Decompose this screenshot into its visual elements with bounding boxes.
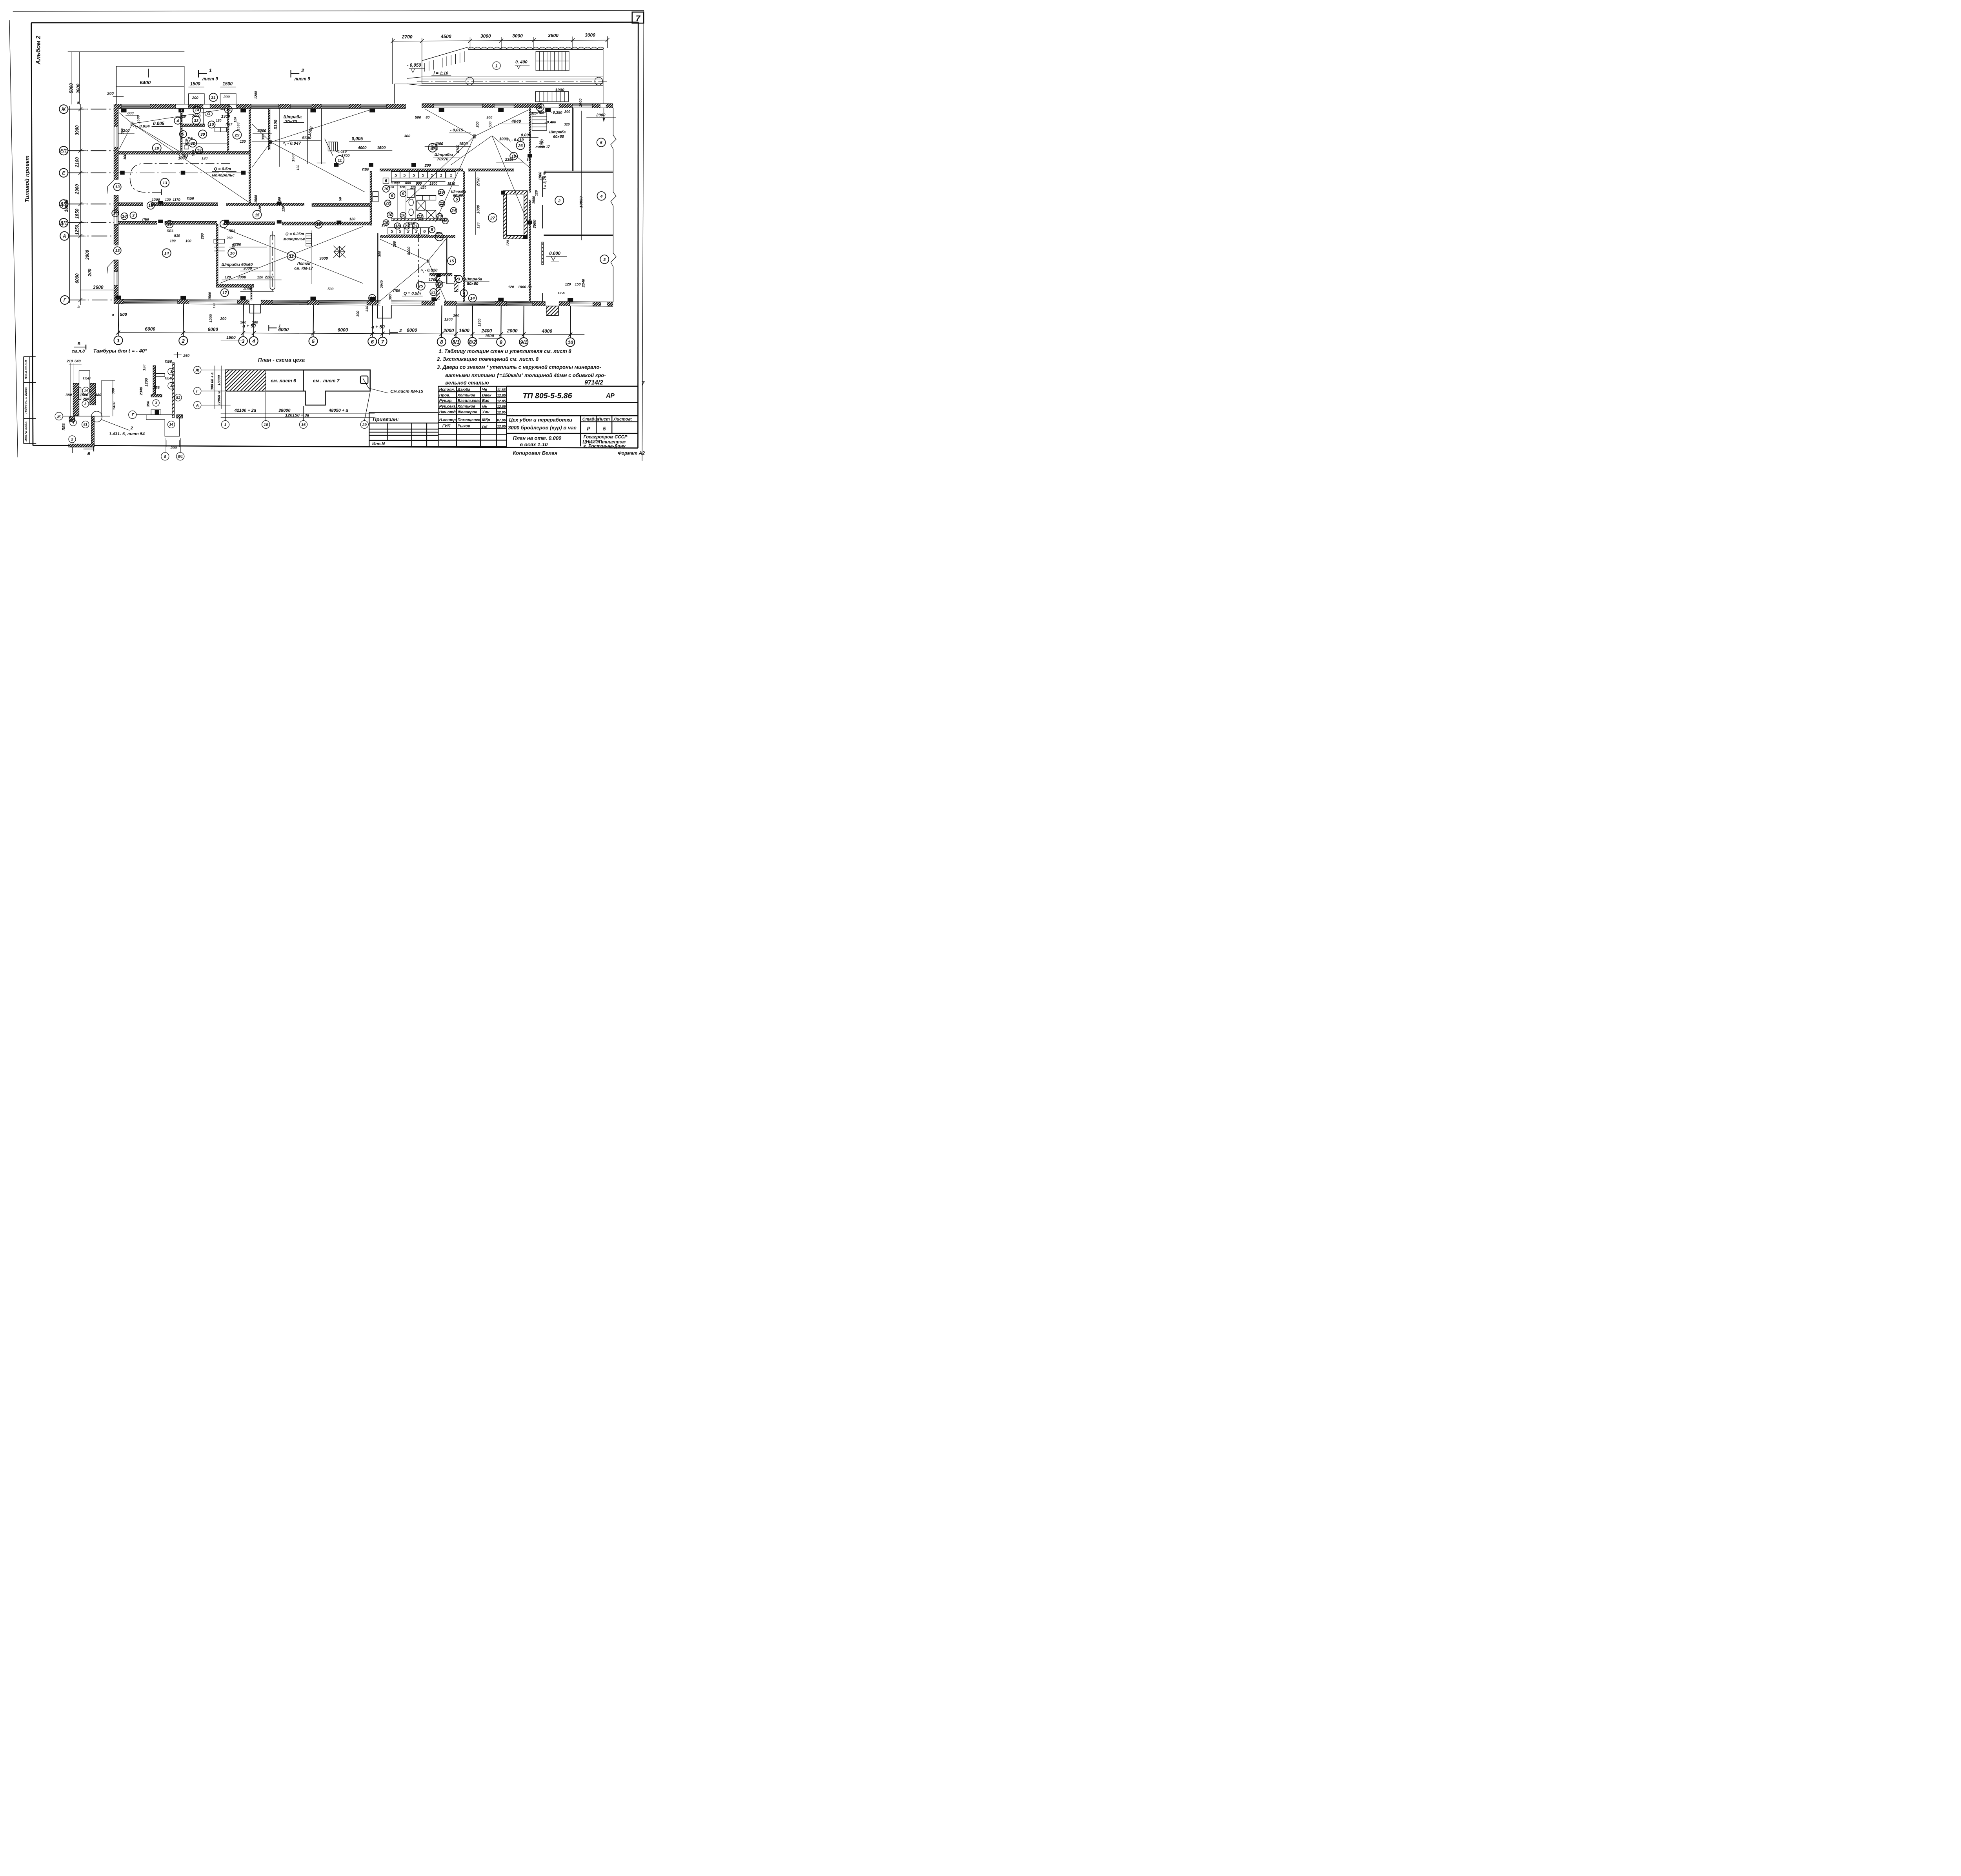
- svg-text:14: 14: [84, 389, 88, 393]
- svg-text:10: 10: [539, 140, 543, 144]
- svg-text:14: 14: [226, 107, 231, 112]
- svg-text:Жевнеров: Жевнеров: [457, 410, 478, 414]
- svg-text:Г: Г: [64, 298, 67, 303]
- svg-text:8: 8: [440, 339, 443, 345]
- top wall hatched piers: [114, 104, 613, 109]
- svg-text:120: 120: [565, 282, 571, 286]
- svg-text:5: 5: [312, 338, 315, 344]
- svg-text:30: 30: [200, 132, 205, 137]
- svg-text:2: 2: [130, 426, 133, 431]
- svg-text:500: 500: [415, 116, 422, 120]
- svg-text:3: 3: [458, 277, 460, 282]
- axis 4: [249, 337, 258, 345]
- svg-text:Н.контр.: Н.контр.: [439, 418, 457, 422]
- svg-text:200: 200: [170, 446, 177, 450]
- svg-text:1500: 1500: [226, 335, 236, 340]
- ramp horizontal lines: [422, 76, 603, 78]
- svg-text:2: 2: [301, 67, 304, 73]
- svg-text:200: 200: [424, 164, 431, 168]
- svg-text:1500: 1500: [190, 82, 200, 87]
- svg-text:Штраба: Штраба: [451, 189, 466, 193]
- sanitary partitions middle: [373, 184, 446, 221]
- svg-text:120: 120: [165, 198, 171, 202]
- svg-text:1170: 1170: [173, 198, 180, 202]
- svg-text:1: 1: [209, 67, 212, 73]
- privyazan table: [369, 413, 438, 447]
- svg-text:3. Двери со знаком * утепли: 3. Двери со знаком * утеплить с наружной…: [437, 364, 601, 370]
- svg-text:Ж: Ж: [61, 107, 66, 112]
- axis slash ticks on bottom dim line: [116, 331, 573, 336]
- svg-text:31: 31: [211, 95, 216, 100]
- svg-text:В: В: [78, 342, 80, 346]
- bottom axis circles and leaders: [114, 304, 585, 347]
- svg-text:1800: 1800: [429, 182, 437, 185]
- svg-text:380: 380: [111, 388, 116, 394]
- svg-text:ЦНИИЭПтицепром: ЦНИИЭПтицепром: [582, 440, 626, 445]
- corridor lower wall D/1: [118, 222, 370, 225]
- svg-text:Ввек: Ввек: [482, 393, 492, 398]
- svg-text:Типовой проект: Типовой проект: [24, 155, 31, 202]
- svg-text:5: 5: [413, 173, 415, 178]
- svg-text:5: 5: [395, 173, 397, 178]
- svg-text:Штраба: Штраба: [549, 130, 566, 135]
- svg-text:10: 10: [264, 423, 268, 427]
- svg-text:9714/2: 9714/2: [584, 380, 603, 386]
- svg-text:Рук.секг.: Рук.секг.: [439, 404, 457, 409]
- svg-text:7: 7: [641, 381, 645, 387]
- svg-text:390: 390: [146, 400, 150, 407]
- svg-text:1980: 1980: [532, 196, 536, 204]
- svg-text:3100: 3100: [274, 120, 278, 129]
- svg-text:9: 9: [391, 194, 393, 198]
- axis Ж line: [63, 415, 110, 417]
- leader to 1.431-6: [91, 411, 102, 422]
- svg-text:120: 120: [508, 285, 514, 289]
- svg-text:80х60: 80х60: [467, 281, 478, 286]
- svg-text:см. лист 6: см. лист 6: [271, 378, 296, 384]
- svg-text:120: 120: [410, 186, 416, 189]
- top exterior wall band: [114, 104, 613, 109]
- svg-text:ПБ6: ПБ6: [62, 423, 65, 431]
- svg-text:2. Экспликацию помещений см.: 2. Экспликацию помещений см. лист. 8: [437, 356, 539, 362]
- svg-text:2340: 2340: [139, 387, 144, 396]
- svg-text:Е: Е: [62, 171, 65, 176]
- svg-text:Лист: Лист: [598, 417, 610, 422]
- svg-text:Подпись и дата: Подпись и дата: [24, 387, 28, 413]
- svg-text:Цех убоя и переработки: Цех убоя и переработки: [509, 417, 572, 423]
- svg-text:5600: 5600: [302, 136, 311, 140]
- svg-text:1. Таблицу толщин стен и ут: 1. Таблицу толщин стен и утеплителя см. …: [439, 348, 572, 354]
- detail1 circled refs: [69, 387, 89, 443]
- svg-text:7: 7: [381, 339, 384, 345]
- svg-text:12.85: 12.85: [497, 411, 506, 414]
- top wall pilaster squares: [121, 108, 551, 113]
- svg-text:300 60 + а: 300 60 + а: [210, 373, 215, 390]
- svg-text:см . лист 7: см . лист 7: [313, 378, 340, 384]
- svg-text:i = 3,75 %: i = 3,75 %: [543, 171, 548, 189]
- svg-text:3: 3: [155, 401, 157, 405]
- svg-text:130: 130: [382, 224, 387, 227]
- svg-text:13: 13: [115, 248, 120, 253]
- svg-text:6000: 6000: [407, 327, 417, 333]
- hatched part of key plan: [226, 370, 266, 391]
- svg-text:3: 3: [603, 257, 606, 262]
- svg-text:510: 510: [174, 234, 180, 238]
- svg-text:Ж: Ж: [195, 368, 200, 373]
- svg-text:200: 200: [107, 91, 114, 96]
- svg-text:18: 18: [122, 214, 127, 219]
- svg-text:80: 80: [527, 158, 531, 162]
- svg-text:1500: 1500: [254, 195, 258, 203]
- svg-text:16: 16: [301, 423, 306, 427]
- svg-text:27: 27: [490, 216, 495, 221]
- svg-text:Q = 0.5т: Q = 0.5т: [404, 291, 421, 296]
- svg-text:10: 10: [388, 213, 393, 217]
- svg-text:Учи: Учи: [482, 410, 489, 414]
- wall 17 to facade: [251, 287, 252, 300]
- svg-text:- 0,350: - 0,350: [551, 111, 562, 115]
- svg-text:1: 1: [440, 173, 442, 178]
- room 5 dim arrow: [603, 108, 605, 122]
- svg-text:А: А: [196, 404, 199, 408]
- svg-text:1200: 1200: [477, 318, 481, 326]
- svg-text:см. КМ-17: см. КМ-17: [294, 267, 313, 271]
- svg-text:60х60: 60х60: [453, 193, 463, 197]
- svg-text:1300: 1300: [121, 129, 130, 133]
- svg-text:Q = 0.25т: Q = 0.25т: [286, 232, 304, 236]
- svg-text:Дзюба: Дзюба: [457, 387, 471, 392]
- svg-text:126150 + 3а: 126150 + 3а: [285, 413, 309, 418]
- svg-text:9: 9: [500, 339, 503, 345]
- svg-text:1510: 1510: [447, 182, 455, 186]
- svg-text:130: 130: [240, 140, 246, 144]
- svg-text:1300: 1300: [221, 115, 230, 119]
- svg-text:Q = 0.5т: Q = 0.5т: [214, 167, 231, 171]
- axis 8/1: [452, 338, 460, 346]
- svg-text:200: 200: [564, 110, 570, 114]
- axis 6: [368, 337, 377, 346]
- wall gap at axis 6/7: [380, 300, 391, 306]
- svg-text:2000: 2000: [507, 328, 518, 334]
- dock axis circles on dash-dot: [466, 77, 474, 85]
- svg-text:9/1: 9/1: [520, 339, 527, 345]
- svg-text:1500: 1500: [377, 146, 386, 150]
- svg-text:18: 18: [395, 224, 400, 229]
- svg-text:42100 + 2а: 42100 + 2а: [234, 408, 256, 413]
- svg-text:2400: 2400: [481, 328, 492, 334]
- svg-text:60х60: 60х60: [553, 135, 564, 139]
- svg-text:18000: 18000: [64, 199, 69, 212]
- svg-text:120: 120: [476, 222, 480, 228]
- svg-text:3: 3: [84, 402, 86, 406]
- svg-text:3000 бройлеров (кур) в час: 3000 бройлеров (кур) в час: [508, 425, 577, 431]
- svg-text:1250: 1250: [75, 225, 80, 235]
- svg-text:1500: 1500: [208, 292, 212, 300]
- svg-text:4500: 4500: [440, 34, 451, 39]
- svg-text:Нач.отд.: Нач.отд.: [439, 410, 457, 414]
- svg-text:800: 800: [127, 111, 134, 115]
- dim lines detail1: [70, 363, 71, 417]
- svg-text:Стадия: Стадия: [582, 417, 600, 422]
- svg-text:6: 6: [371, 339, 374, 345]
- svg-text:5: 5: [603, 426, 606, 432]
- svg-text:Помащенко: Помащенко: [458, 418, 480, 422]
- svg-text:200: 200: [87, 269, 92, 277]
- svg-text:80: 80: [426, 116, 429, 120]
- left dim texts (rotated): [64, 83, 93, 284]
- svg-text:5000: 5000: [69, 83, 74, 93]
- svg-text:5: 5: [403, 173, 406, 178]
- svg-text:14: 14: [113, 211, 118, 216]
- svg-text:8: 8: [164, 455, 166, 459]
- top wall window lines: [121, 105, 592, 107]
- sanitary west wall vertical: [370, 171, 372, 225]
- drain points: [131, 122, 475, 263]
- svg-text:120: 120: [212, 303, 216, 308]
- svg-text:Альбом 2: Альбом 2: [35, 35, 42, 65]
- svg-text:120: 120: [233, 117, 237, 122]
- svg-text:6000: 6000: [75, 273, 80, 284]
- svg-text:120: 120: [534, 190, 538, 196]
- svg-text:Чв: Чв: [482, 387, 487, 392]
- svg-text:1800: 1800: [178, 156, 187, 160]
- key plan axes: [194, 366, 375, 429]
- room 24/14 lower walls: [430, 273, 452, 276]
- svg-text:ватными плитами ƒ=150кг/м² т: ватными плитами ƒ=150кг/м² толщиной 40мм…: [445, 372, 606, 378]
- title block right part: [507, 386, 638, 446]
- svg-text:1850: 1850: [75, 209, 80, 219]
- svg-text:ПБ6: ПБ6: [362, 167, 369, 171]
- svg-text:81: 81: [176, 396, 180, 400]
- svg-text:12: 12: [418, 214, 422, 219]
- svg-text:3000: 3000: [480, 33, 491, 39]
- svg-text:Копировал Белая: Копировал Белая: [513, 450, 558, 456]
- dock east edge: [602, 47, 604, 104]
- tambour 31 boxes above wall: [189, 87, 236, 104]
- dim line 6400: [116, 85, 184, 87]
- svg-text:ПБ6: ПБ6: [393, 289, 400, 293]
- svg-text:7: 7: [636, 14, 641, 23]
- frame bottom: [33, 445, 638, 448]
- svg-text:Хотинов: Хотинов: [457, 404, 476, 409]
- svg-text:4040: 4040: [511, 119, 521, 124]
- svg-text:3600: 3600: [76, 84, 81, 94]
- bottom exterior wall band: [114, 299, 613, 306]
- svg-text:ПБ6: ПБ6: [435, 231, 442, 235]
- svg-text:4: 4: [600, 194, 603, 199]
- svg-text:260: 260: [226, 236, 233, 240]
- svg-text:ПБВ: ПБВ: [83, 376, 91, 380]
- svg-text:6000: 6000: [145, 326, 155, 332]
- svg-text:0.000: 0.000: [549, 251, 560, 256]
- sanitary block north wall: [380, 169, 463, 171]
- svg-text:500: 500: [252, 320, 258, 325]
- dock stairs grid: [536, 51, 569, 71]
- svg-text:i = 1:10: i = 1:10: [433, 71, 448, 76]
- svg-text:70х70: 70х70: [437, 157, 448, 162]
- svg-text:Лоток: Лоток: [297, 262, 311, 266]
- left wall door swings: [107, 180, 114, 274]
- svg-text:ПБ6: ПБ6: [153, 385, 160, 389]
- svg-text:17: 17: [222, 291, 227, 295]
- svg-text:6000: 6000: [338, 327, 348, 333]
- svg-text:3: 3: [463, 291, 465, 296]
- svg-text:19: 19: [167, 222, 172, 227]
- svg-text:1000: 1000: [578, 98, 583, 107]
- svg-text:120: 120: [257, 275, 264, 280]
- svg-text:Штрабы 60х60: Штрабы 60х60: [222, 262, 253, 267]
- svg-text:16: 16: [230, 251, 235, 256]
- svg-text:29: 29: [235, 133, 240, 138]
- svg-text:5: 5: [600, 140, 602, 145]
- detail 1: [55, 363, 129, 447]
- left dim chain: [69, 104, 86, 305]
- svg-text:80: 80: [528, 285, 531, 289]
- detail 2: [129, 363, 186, 447]
- svg-text:Вб: Вб: [482, 425, 488, 430]
- svg-text:4: 4: [176, 118, 179, 123]
- svg-text:1: 1: [450, 173, 452, 178]
- corrugated top edge: [468, 47, 604, 49]
- room 11 verticals and dims: [252, 109, 326, 284]
- paper edge left: [9, 20, 18, 457]
- svg-text:1.431- 6, лист 54: 1.431- 6, лист 54: [109, 432, 145, 436]
- svg-text:1: 1: [495, 64, 498, 69]
- lower走 wall: [91, 416, 95, 447]
- svg-text:26: 26: [518, 144, 523, 148]
- svg-text:1500: 1500: [459, 142, 468, 146]
- svg-text:12060+а: 12060+а: [217, 391, 222, 405]
- svg-text:2200: 2200: [232, 242, 242, 247]
- svg-text:9: 9: [402, 191, 404, 196]
- svg-text:4000: 4000: [541, 328, 552, 334]
- frame left: [31, 23, 33, 445]
- svg-text:лист 17: лист 17: [535, 145, 550, 149]
- svg-text:1700: 1700: [341, 154, 350, 158]
- svg-text:2: 2: [182, 338, 185, 344]
- svg-text:ПБ6: ПБ6: [186, 136, 193, 140]
- svg-text:-0.026: -0.026: [336, 149, 347, 154]
- svg-text:14: 14: [470, 296, 475, 301]
- svg-text:190: 190: [170, 239, 176, 243]
- svg-text:3: 3: [132, 213, 135, 218]
- svg-text:3000: 3000: [237, 275, 246, 280]
- svg-text:3500: 3500: [533, 220, 537, 229]
- svg-text:Рыков: Рыков: [458, 424, 470, 429]
- svg-text:38000: 38000: [278, 408, 291, 413]
- svg-text:200: 200: [220, 317, 227, 321]
- svg-text:- 0.047: - 0.047: [287, 141, 301, 146]
- svg-text:4: 4: [72, 421, 74, 425]
- left strip table: [24, 357, 36, 444]
- svg-text:8/2: 8/2: [469, 339, 476, 345]
- svg-text:ПБ6: ПБ6: [165, 376, 172, 380]
- svg-text:120: 120: [296, 165, 300, 171]
- svg-text:Инв.№ подл.: Инв.№ подл.: [24, 421, 28, 442]
- svg-text:8/1: 8/1: [452, 339, 459, 345]
- svg-text:14: 14: [164, 251, 169, 256]
- svg-text:3: 3: [170, 370, 172, 374]
- sump pit diamond: [327, 240, 351, 264]
- svg-text:2: 2: [407, 229, 409, 234]
- svg-text:380: 380: [95, 393, 102, 397]
- section flag 1 / list 9: [198, 70, 207, 78]
- svg-text:11.85: 11.85: [497, 388, 506, 392]
- svg-text:5: 5: [399, 229, 402, 234]
- svg-text:10: 10: [209, 122, 214, 127]
- svg-text:а: а: [112, 313, 114, 317]
- svg-text:1: 1: [224, 423, 227, 427]
- svg-text:А: А: [62, 234, 66, 239]
- axis 7: [378, 337, 387, 346]
- svg-text:8/1: 8/1: [178, 455, 183, 459]
- svg-text:120: 120: [142, 364, 146, 371]
- svg-text:лист 9: лист 9: [202, 77, 218, 82]
- svg-text:См.лист КМ-15: См.лист КМ-15: [390, 389, 423, 394]
- svg-text:11: 11: [338, 158, 342, 163]
- svg-text:Ж: Ж: [57, 414, 61, 419]
- left axis circles: [59, 105, 114, 304]
- axis 2: [179, 336, 187, 345]
- svg-text:3600: 3600: [548, 33, 558, 38]
- staff table: [438, 386, 506, 446]
- shower cells top row: [383, 172, 456, 184]
- wall between rooms 13/15 vertical: [249, 109, 251, 203]
- svg-text:2940: 2940: [380, 280, 384, 289]
- right rooms dividers: [542, 108, 613, 302]
- svg-text:0.005: 0.005: [153, 122, 164, 126]
- svg-text:200: 200: [453, 314, 460, 318]
- svg-text:120: 120: [389, 185, 394, 189]
- svg-text:1420: 1420: [112, 402, 116, 410]
- svg-text:2: 2: [399, 328, 402, 333]
- svg-text:ПБ6: ПБ6: [558, 291, 565, 295]
- svg-text:3000: 3000: [585, 32, 595, 38]
- svg-text:300: 300: [261, 134, 265, 140]
- svg-text:8700: 8700: [456, 144, 460, 153]
- svg-text:330: 330: [365, 306, 369, 312]
- ramp bank slope: [421, 61, 423, 84]
- notes: [437, 348, 606, 386]
- svg-text:Формат А2: Формат А2: [618, 451, 645, 456]
- section mark below detail1: [73, 447, 94, 453]
- svg-text:5: 5: [391, 229, 393, 234]
- svg-text:ПБ7: ПБ7: [226, 122, 233, 126]
- svg-text:120: 120: [202, 156, 207, 160]
- svg-text:5: 5: [431, 227, 433, 232]
- sanitary lower band: [380, 235, 455, 238]
- svg-text:2000: 2000: [443, 328, 454, 333]
- svg-text:6: 6: [385, 179, 387, 184]
- svg-text:Рук.гр.: Рук.гр.: [439, 399, 453, 403]
- dock west vertical: [393, 84, 395, 104]
- svg-text:Штрабы: Штрабы: [435, 153, 453, 157]
- bottom wall window lines: [124, 300, 593, 305]
- svg-text:29: 29: [362, 423, 367, 427]
- svg-text:10: 10: [155, 146, 159, 151]
- svg-text:150: 150: [575, 282, 581, 286]
- svg-text:ПБ6: ПБ6: [187, 196, 195, 200]
- svg-text:70х70: 70х70: [285, 120, 297, 124]
- dim chain right of san block: [475, 172, 476, 235]
- svg-text:500: 500: [240, 320, 247, 325]
- svg-text:8000: 8000: [407, 246, 411, 255]
- svg-text:3: 3: [242, 338, 245, 344]
- svg-text:6: 6: [423, 229, 426, 234]
- svg-text:Г: Г: [132, 413, 135, 417]
- svg-text:монорельс: монорельс: [284, 237, 306, 242]
- walls of detail1: [73, 384, 79, 416]
